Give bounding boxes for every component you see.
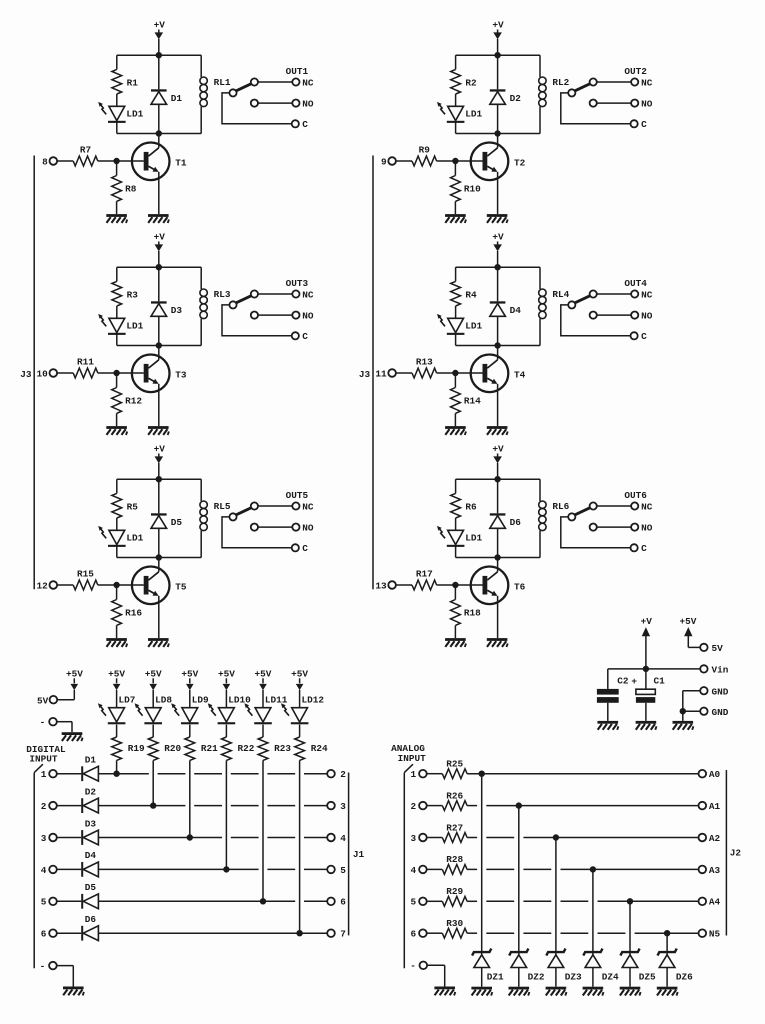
relay coil RL4 bbox=[539, 289, 570, 319]
input pin 2 analog bbox=[411, 801, 443, 812]
+V supply label block 6 bbox=[492, 443, 504, 479]
svg-text:+5V: +5V bbox=[145, 668, 162, 679]
svg-text:R13: R13 bbox=[416, 356, 433, 367]
diode D2 digital bbox=[81, 786, 98, 813]
svg-text:D5: D5 bbox=[85, 882, 97, 893]
wire row 5 analog bbox=[467, 900, 698, 902]
wire diode branch upper block 1 bbox=[158, 55, 160, 89]
svg-text:NC: NC bbox=[302, 501, 314, 512]
svg-text:R18: R18 bbox=[464, 607, 481, 618]
wire top rail block 4 bbox=[456, 266, 540, 268]
pin Vin power bbox=[646, 665, 729, 676]
node base junction block 6 bbox=[453, 582, 458, 587]
LED LD1 block 2 bbox=[437, 102, 482, 123]
svg-text:C: C bbox=[641, 543, 647, 554]
wire row 2 digital bbox=[98, 805, 327, 807]
svg-text:NC: NC bbox=[302, 289, 314, 300]
node bottom rail junction block 3 bbox=[156, 343, 161, 348]
+5V supply LED LD10 bbox=[218, 668, 235, 707]
svg-text:D1: D1 bbox=[171, 93, 183, 104]
wire DZ6 to ground bbox=[666, 968, 668, 987]
relay switch lever RL4 bbox=[568, 296, 590, 309]
svg-text:A4: A4 bbox=[709, 897, 721, 908]
svg-text:+5V: +5V bbox=[255, 668, 272, 679]
diode D4 digital bbox=[81, 850, 98, 877]
resistor R9 bbox=[412, 144, 437, 166]
ground C2 bbox=[598, 721, 619, 730]
wire R16 to ground block 5 bbox=[116, 625, 118, 638]
input pin 5 analog bbox=[411, 897, 443, 908]
wire zener DZ6 drop bbox=[666, 933, 668, 955]
wire collector block 5 bbox=[158, 558, 160, 572]
svg-text:-: - bbox=[410, 961, 416, 972]
wire R6 to LED block 6 bbox=[455, 518, 457, 530]
wire coil to bottom rail block 3 bbox=[200, 319, 202, 346]
svg-text:LD10: LD10 bbox=[228, 695, 251, 706]
ground emitter block 5 bbox=[148, 638, 169, 647]
node row 6 zener junction bbox=[664, 931, 669, 936]
node base junction block 4 bbox=[453, 370, 458, 375]
ground digital bottom bbox=[63, 987, 84, 996]
wire LED LD12 to R24 bbox=[299, 725, 301, 737]
resistor R27 bbox=[442, 822, 467, 842]
svg-text:LD12: LD12 bbox=[302, 695, 325, 706]
svg-text:J1: J1 bbox=[353, 849, 365, 860]
wire R14 to ground block 4 bbox=[454, 413, 456, 426]
svg-text:LD11: LD11 bbox=[265, 695, 288, 706]
zener diode DZ5 bbox=[620, 949, 656, 983]
svg-text:D4: D4 bbox=[510, 305, 522, 316]
svg-text:+5V: +5V bbox=[218, 668, 235, 679]
svg-text:5: 5 bbox=[411, 897, 417, 908]
svg-text:DZ1: DZ1 bbox=[487, 972, 504, 983]
svg-text:C: C bbox=[302, 543, 308, 554]
label OUT6 bbox=[624, 490, 647, 501]
transistor T4 bbox=[471, 355, 526, 393]
label OUT5 bbox=[286, 490, 309, 501]
wire R19 to row 1 bbox=[116, 760, 118, 773]
svg-text:+5V: +5V bbox=[181, 668, 198, 679]
wire bottom rail block 2 bbox=[456, 133, 540, 135]
input pin 1 digital bbox=[41, 769, 81, 780]
zener diode DZ4 bbox=[583, 949, 619, 983]
node +V rail junction block 5 bbox=[156, 477, 161, 482]
resistor R5 bbox=[112, 493, 138, 518]
output pin 7 digital bbox=[327, 929, 346, 940]
resistor R13 bbox=[412, 356, 437, 378]
ground C1 bbox=[636, 721, 657, 730]
relay contact NC block 2 bbox=[590, 77, 653, 88]
+V supply label block 4 bbox=[492, 231, 504, 267]
transistor T5 bbox=[132, 567, 187, 605]
relay coil RL1 bbox=[200, 77, 231, 107]
transistor T1 bbox=[132, 143, 187, 181]
wire emitter block 6 bbox=[497, 596, 499, 638]
ground emitter block 4 bbox=[487, 426, 508, 435]
pin GND upper bbox=[683, 686, 729, 711]
label DIGITAL INPUT bbox=[26, 744, 66, 765]
svg-text:DZ4: DZ4 bbox=[602, 972, 619, 983]
svg-text:+V: +V bbox=[154, 443, 166, 454]
wire diode branch upper block 2 bbox=[497, 55, 499, 89]
relay contact NO block 6 bbox=[590, 523, 653, 534]
wire LED to bottom rail block 4 bbox=[455, 333, 457, 345]
wire bottom rail block 1 bbox=[117, 133, 201, 135]
wire R23 to row 5 bbox=[262, 760, 264, 901]
node base junction block 3 bbox=[114, 370, 119, 375]
svg-text:C2: C2 bbox=[617, 676, 629, 687]
svg-text:C: C bbox=[302, 331, 308, 342]
ground under R10 bbox=[445, 214, 466, 223]
output pin A3 analog bbox=[699, 865, 721, 876]
LED LD10 bbox=[208, 695, 251, 725]
svg-text:4: 4 bbox=[340, 833, 346, 844]
svg-text:OUT3: OUT3 bbox=[286, 278, 309, 289]
ground under R18 bbox=[445, 638, 466, 647]
svg-text:D4: D4 bbox=[85, 850, 97, 861]
diode D2 bbox=[490, 89, 521, 104]
node bottom rail junction block 1 bbox=[156, 131, 161, 136]
svg-text:7: 7 bbox=[340, 929, 346, 940]
LED LD1 block 1 bbox=[98, 102, 143, 123]
wire base junction to R12 bbox=[116, 373, 118, 388]
wire DZ2 to ground bbox=[518, 968, 520, 987]
relay contact NO block 3 bbox=[251, 311, 314, 322]
svg-text:A0: A0 bbox=[709, 769, 721, 780]
wire R3 to LED block 3 bbox=[116, 306, 118, 318]
wire bottom rail block 4 bbox=[456, 345, 540, 347]
node GND junction bbox=[680, 709, 685, 714]
wire LED to bottom rail block 5 bbox=[116, 545, 118, 557]
node Vin junction bbox=[643, 666, 648, 671]
relay contact NC block 5 bbox=[251, 501, 314, 512]
wire top rail block 1 bbox=[117, 54, 201, 56]
wire collector block 2 bbox=[497, 134, 499, 148]
resistor R3 bbox=[112, 281, 138, 306]
svg-text:OUT1: OUT1 bbox=[286, 66, 309, 77]
LED LD9 bbox=[171, 695, 209, 725]
svg-text:R23: R23 bbox=[274, 743, 291, 754]
resistor R25 bbox=[442, 759, 467, 779]
wire emitter block 4 bbox=[497, 384, 499, 426]
svg-text:9: 9 bbox=[381, 157, 387, 168]
LED LD1 block 5 bbox=[98, 526, 143, 547]
svg-text:LD9: LD9 bbox=[192, 695, 209, 706]
svg-text:R30: R30 bbox=[446, 918, 463, 929]
resistor R21 bbox=[185, 737, 218, 760]
svg-text:12: 12 bbox=[37, 581, 49, 592]
output pin A4 analog bbox=[699, 897, 721, 908]
svg-text:N5: N5 bbox=[709, 929, 721, 940]
svg-text:6: 6 bbox=[41, 929, 47, 940]
label OUT2 bbox=[624, 66, 647, 77]
relay contact C block 5 bbox=[222, 517, 308, 554]
wire bottom rail block 5 bbox=[117, 557, 201, 559]
node +V rail junction block 2 bbox=[495, 53, 500, 58]
resistor R11 bbox=[73, 356, 98, 378]
wire coil branch upper block 3 bbox=[200, 267, 202, 289]
supply +V power section bbox=[641, 616, 653, 669]
node row 5 zener junction bbox=[627, 899, 632, 904]
svg-text:D6: D6 bbox=[510, 517, 522, 528]
output pin 3 digital bbox=[327, 801, 346, 812]
svg-text:J3: J3 bbox=[20, 369, 32, 380]
wire diode branch upper block 3 bbox=[158, 267, 160, 301]
svg-text:NC: NC bbox=[641, 77, 653, 88]
wire zener DZ5 drop bbox=[629, 901, 631, 955]
wire emitter block 2 bbox=[497, 172, 499, 214]
ground DZ5 bbox=[620, 987, 641, 996]
output pin 4 digital bbox=[327, 833, 346, 844]
svg-text:INPUT: INPUT bbox=[398, 753, 427, 764]
node row 6 column junction bbox=[297, 931, 302, 936]
svg-text:A3: A3 bbox=[709, 865, 721, 876]
wire emitter block 1 bbox=[158, 172, 160, 214]
input pin 1 analog bbox=[411, 769, 443, 780]
svg-text:T5: T5 bbox=[175, 582, 187, 593]
wire emitter block 5 bbox=[158, 596, 160, 638]
svg-text:3: 3 bbox=[340, 801, 346, 812]
svg-text:R9: R9 bbox=[419, 144, 431, 155]
diode D4 bbox=[490, 301, 521, 316]
input pin 3 digital bbox=[41, 833, 81, 844]
LED LD1 block 6 bbox=[437, 526, 482, 547]
svg-text:NO: NO bbox=[641, 99, 653, 110]
output pin A0 analog bbox=[699, 769, 721, 780]
svg-text:5V: 5V bbox=[37, 695, 49, 706]
svg-text:R28: R28 bbox=[446, 854, 463, 865]
svg-text:OUT4: OUT4 bbox=[624, 278, 647, 289]
wire LED LD7 to R19 bbox=[116, 725, 118, 737]
svg-text:+5V: +5V bbox=[680, 616, 697, 627]
resistor R7 bbox=[73, 144, 98, 166]
svg-text:C1: C1 bbox=[654, 676, 666, 687]
svg-text:DZ2: DZ2 bbox=[528, 972, 545, 983]
capacitor C2 bbox=[597, 676, 638, 703]
label OUT1 bbox=[286, 66, 309, 77]
resistor R15 bbox=[73, 568, 98, 590]
svg-text:1: 1 bbox=[411, 769, 417, 780]
wire base input block 1 bbox=[98, 160, 144, 162]
wire bottom rail block 6 bbox=[456, 557, 540, 559]
ground digital top bbox=[62, 732, 83, 741]
svg-text:R3: R3 bbox=[127, 289, 139, 300]
wire diode to bottom rail block 5 bbox=[158, 528, 160, 557]
resistor R1 bbox=[112, 69, 138, 94]
wire top rail block 3 bbox=[117, 266, 201, 268]
svg-text:R6: R6 bbox=[465, 501, 477, 512]
svg-text:T2: T2 bbox=[514, 158, 526, 169]
relay contact C block 3 bbox=[222, 305, 308, 342]
svg-text:GND: GND bbox=[712, 686, 729, 697]
svg-text:LD8: LD8 bbox=[155, 695, 172, 706]
node row 3 column junction bbox=[187, 835, 192, 840]
transistor T6 bbox=[471, 567, 526, 605]
svg-text:D2: D2 bbox=[85, 786, 97, 797]
node row 3 zener junction bbox=[553, 835, 558, 840]
relay switch lever RL2 bbox=[568, 84, 590, 97]
svg-text:R2: R2 bbox=[465, 77, 477, 88]
svg-text:LD7: LD7 bbox=[119, 695, 136, 706]
resistor R22 bbox=[222, 737, 255, 760]
resistor R14 bbox=[451, 388, 482, 414]
svg-text:OUT2: OUT2 bbox=[624, 66, 647, 77]
wire top rail block 6 bbox=[456, 478, 540, 480]
svg-text:NO: NO bbox=[302, 523, 314, 534]
svg-text:DZ5: DZ5 bbox=[639, 972, 656, 983]
ground DZ2 bbox=[509, 987, 530, 996]
svg-text:R19: R19 bbox=[128, 743, 145, 754]
wire base junction to R18 bbox=[454, 585, 456, 600]
wire row 5 digital bbox=[98, 900, 327, 902]
node base junction block 1 bbox=[114, 158, 119, 163]
node +V rail junction block 3 bbox=[156, 265, 161, 270]
ground DZ3 bbox=[546, 987, 567, 996]
pin GND lower bbox=[683, 707, 729, 718]
wire coil branch upper block 2 bbox=[539, 55, 541, 77]
svg-text:NO: NO bbox=[641, 311, 653, 322]
wire row 1 analog bbox=[467, 773, 698, 775]
wire coil to bottom rail block 5 bbox=[200, 531, 202, 558]
label OUT4 bbox=[624, 278, 647, 289]
svg-text:D3: D3 bbox=[85, 818, 97, 829]
input pin 6 digital bbox=[41, 929, 81, 940]
ground analog minus bbox=[434, 987, 455, 996]
ground emitter block 2 bbox=[487, 214, 508, 223]
svg-text:LD1: LD1 bbox=[465, 321, 482, 332]
wire R24 to row 6 bbox=[299, 760, 301, 933]
wire diode branch upper block 6 bbox=[497, 479, 499, 513]
output pin A1 analog bbox=[699, 801, 721, 812]
relay contact NC block 3 bbox=[251, 289, 314, 300]
svg-text:+: + bbox=[631, 676, 637, 687]
relay contact NO block 4 bbox=[590, 311, 653, 322]
wire base junction to R10 bbox=[454, 161, 456, 176]
svg-text:R24: R24 bbox=[311, 743, 328, 754]
wire R2 to LED block 2 bbox=[455, 94, 457, 106]
wire DZ3 to ground bbox=[555, 968, 557, 987]
svg-text:D6: D6 bbox=[85, 914, 97, 925]
svg-text:RL4: RL4 bbox=[552, 289, 569, 300]
relay contact NO block 5 bbox=[251, 523, 314, 534]
svg-text:R25: R25 bbox=[446, 759, 463, 770]
wire row 4 analog bbox=[467, 868, 698, 870]
node +V rail junction block 4 bbox=[495, 265, 500, 270]
svg-text:-: - bbox=[40, 717, 46, 728]
svg-text:+V: +V bbox=[492, 443, 504, 454]
svg-text:2: 2 bbox=[411, 801, 417, 812]
svg-text:2: 2 bbox=[340, 769, 346, 780]
input pin 4 analog bbox=[411, 865, 443, 876]
node row 1 zener junction bbox=[479, 771, 484, 776]
transistor T3 bbox=[132, 355, 187, 393]
svg-text:4: 4 bbox=[41, 865, 47, 876]
+5V supply LED LD12 bbox=[291, 668, 308, 707]
wire R21 to row 3 bbox=[189, 760, 191, 837]
wire LED to bottom rail block 6 bbox=[455, 545, 457, 557]
svg-text:D3: D3 bbox=[171, 305, 183, 316]
resistor R17 bbox=[412, 568, 437, 590]
svg-text:R5: R5 bbox=[127, 501, 139, 512]
diode D1 digital bbox=[81, 755, 98, 782]
wire R18 to ground block 6 bbox=[454, 625, 456, 638]
input pin 4 digital bbox=[41, 865, 81, 876]
relay contact C block 1 bbox=[222, 93, 308, 130]
node +V rail junction block 6 bbox=[495, 477, 500, 482]
resistor R20 bbox=[148, 737, 181, 760]
svg-text:T6: T6 bbox=[514, 582, 526, 593]
svg-text:+V: +V bbox=[154, 231, 166, 242]
svg-text:R16: R16 bbox=[125, 607, 142, 618]
svg-text:8: 8 bbox=[42, 157, 48, 168]
wire coil branch upper block 4 bbox=[539, 267, 541, 289]
wire diode to bottom rail block 2 bbox=[497, 104, 499, 133]
relay contact NC block 1 bbox=[251, 77, 314, 88]
svg-text:+V: +V bbox=[492, 19, 504, 30]
wire LED LD10 to R22 bbox=[225, 725, 227, 737]
output pin N5 analog bbox=[699, 929, 721, 940]
input bus bracket digital bbox=[34, 764, 43, 968]
svg-text:NO: NO bbox=[302, 311, 314, 322]
wire R5 to LED block 5 bbox=[116, 518, 118, 530]
zener diode DZ1 bbox=[472, 949, 504, 983]
LED LD1 block 4 bbox=[437, 314, 482, 335]
svg-text:DZ3: DZ3 bbox=[565, 972, 582, 983]
svg-text:NO: NO bbox=[641, 523, 653, 534]
wire zener DZ3 drop bbox=[555, 838, 557, 956]
relay contact NO block 1 bbox=[251, 99, 314, 110]
resistor R29 bbox=[442, 886, 467, 906]
node row 4 zener junction bbox=[590, 867, 595, 872]
+V supply label block 1 bbox=[154, 19, 166, 55]
output pin A2 analog bbox=[699, 833, 721, 844]
wire zener DZ2 drop bbox=[518, 806, 520, 955]
svg-text:A2: A2 bbox=[709, 833, 721, 844]
resistor R6 bbox=[451, 493, 477, 518]
node bottom rail junction block 5 bbox=[156, 555, 161, 560]
wire zener DZ1 drop bbox=[481, 774, 483, 955]
relay coil RL3 bbox=[200, 289, 231, 319]
+5V supply LED LD9 bbox=[181, 668, 198, 707]
relay switch lever RL3 bbox=[229, 296, 251, 309]
pin - digital top bbox=[40, 717, 72, 732]
wire Vin to C2 bbox=[608, 669, 646, 689]
relay contact C block 6 bbox=[561, 517, 647, 554]
wire diode to bottom rail block 6 bbox=[497, 528, 499, 557]
connector J2 bracket bbox=[726, 770, 741, 936]
zener diode DZ3 bbox=[546, 949, 582, 983]
svg-text:NO: NO bbox=[302, 99, 314, 110]
diode D3 digital bbox=[81, 818, 98, 845]
wire bottom rail block 3 bbox=[117, 345, 201, 347]
+5V supply LED LD7 bbox=[108, 668, 125, 707]
node row 1 column junction bbox=[114, 771, 119, 776]
svg-text:3: 3 bbox=[411, 833, 417, 844]
relay switch lever RL5 bbox=[229, 508, 251, 521]
svg-text:NC: NC bbox=[641, 501, 653, 512]
svg-text:+5V: +5V bbox=[66, 668, 83, 679]
diode D1 bbox=[151, 89, 182, 104]
svg-text:DZ6: DZ6 bbox=[676, 972, 693, 983]
relay contact NO block 2 bbox=[590, 99, 653, 110]
input pin 9 block 2 bbox=[381, 157, 412, 168]
input pin 10 block 3 bbox=[37, 369, 74, 380]
relay contact NC block 4 bbox=[590, 289, 653, 300]
wire diode to bottom rail block 4 bbox=[497, 316, 499, 345]
wire row 1 digital bbox=[98, 773, 327, 775]
svg-text:R14: R14 bbox=[464, 395, 481, 406]
wire coil to bottom rail block 2 bbox=[539, 107, 541, 134]
